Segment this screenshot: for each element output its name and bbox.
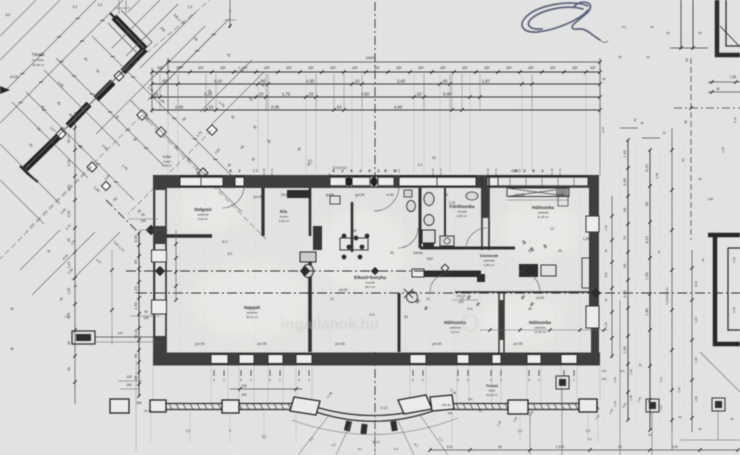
center axis (374, 2, 376, 176)
building right wall (589, 175, 591, 300)
terrace edges (151, 404, 599, 422)
terrace posts (110, 395, 597, 415)
kitchen (287, 190, 311, 198)
right dim columns (620, 127, 638, 129)
horizontal axes (126, 270, 470, 272)
signature blue pen (522, 2, 600, 40)
faint grid (170, 186, 590, 352)
radial lines (292, 414, 458, 455)
bathroom fixtures (424, 193, 434, 226)
left dimension columns (138, 233, 140, 396)
door swings (222, 186, 540, 292)
wall window diamonds (114, 71, 124, 81)
diagonal dimension lines (0, 0, 236, 200)
diagonal retaining wall (24, 17, 145, 170)
corridor bottom bar (412, 271, 481, 278)
building left wall (153, 175, 155, 355)
under-window ticks (213, 370, 215, 376)
axis L-bend (138, 233, 140, 293)
building bottom wall (153, 353, 600, 355)
wall parallel offsets (30, 10, 152, 164)
hall bits (300, 252, 316, 262)
inter-row connectors (160, 74, 532, 111)
wc (407, 200, 416, 211)
x112 faint line (111, 250, 113, 345)
top aux vline (229, 0, 231, 28)
bedroom divider wall (498, 293, 500, 353)
right mid frame (708, 233, 740, 346)
right top verticals (680, 0, 682, 49)
bath right wall band (481, 176, 483, 250)
building top wall (153, 175, 598, 177)
extra diagonal clutter (0, 0, 264, 224)
room light patches (176, 188, 580, 346)
extension lines to wall (168, 74, 600, 172)
interior walls (166, 188, 590, 352)
left entrance (72, 331, 95, 344)
right top frame corner (717, 0, 740, 55)
wardrobe (507, 188, 569, 197)
